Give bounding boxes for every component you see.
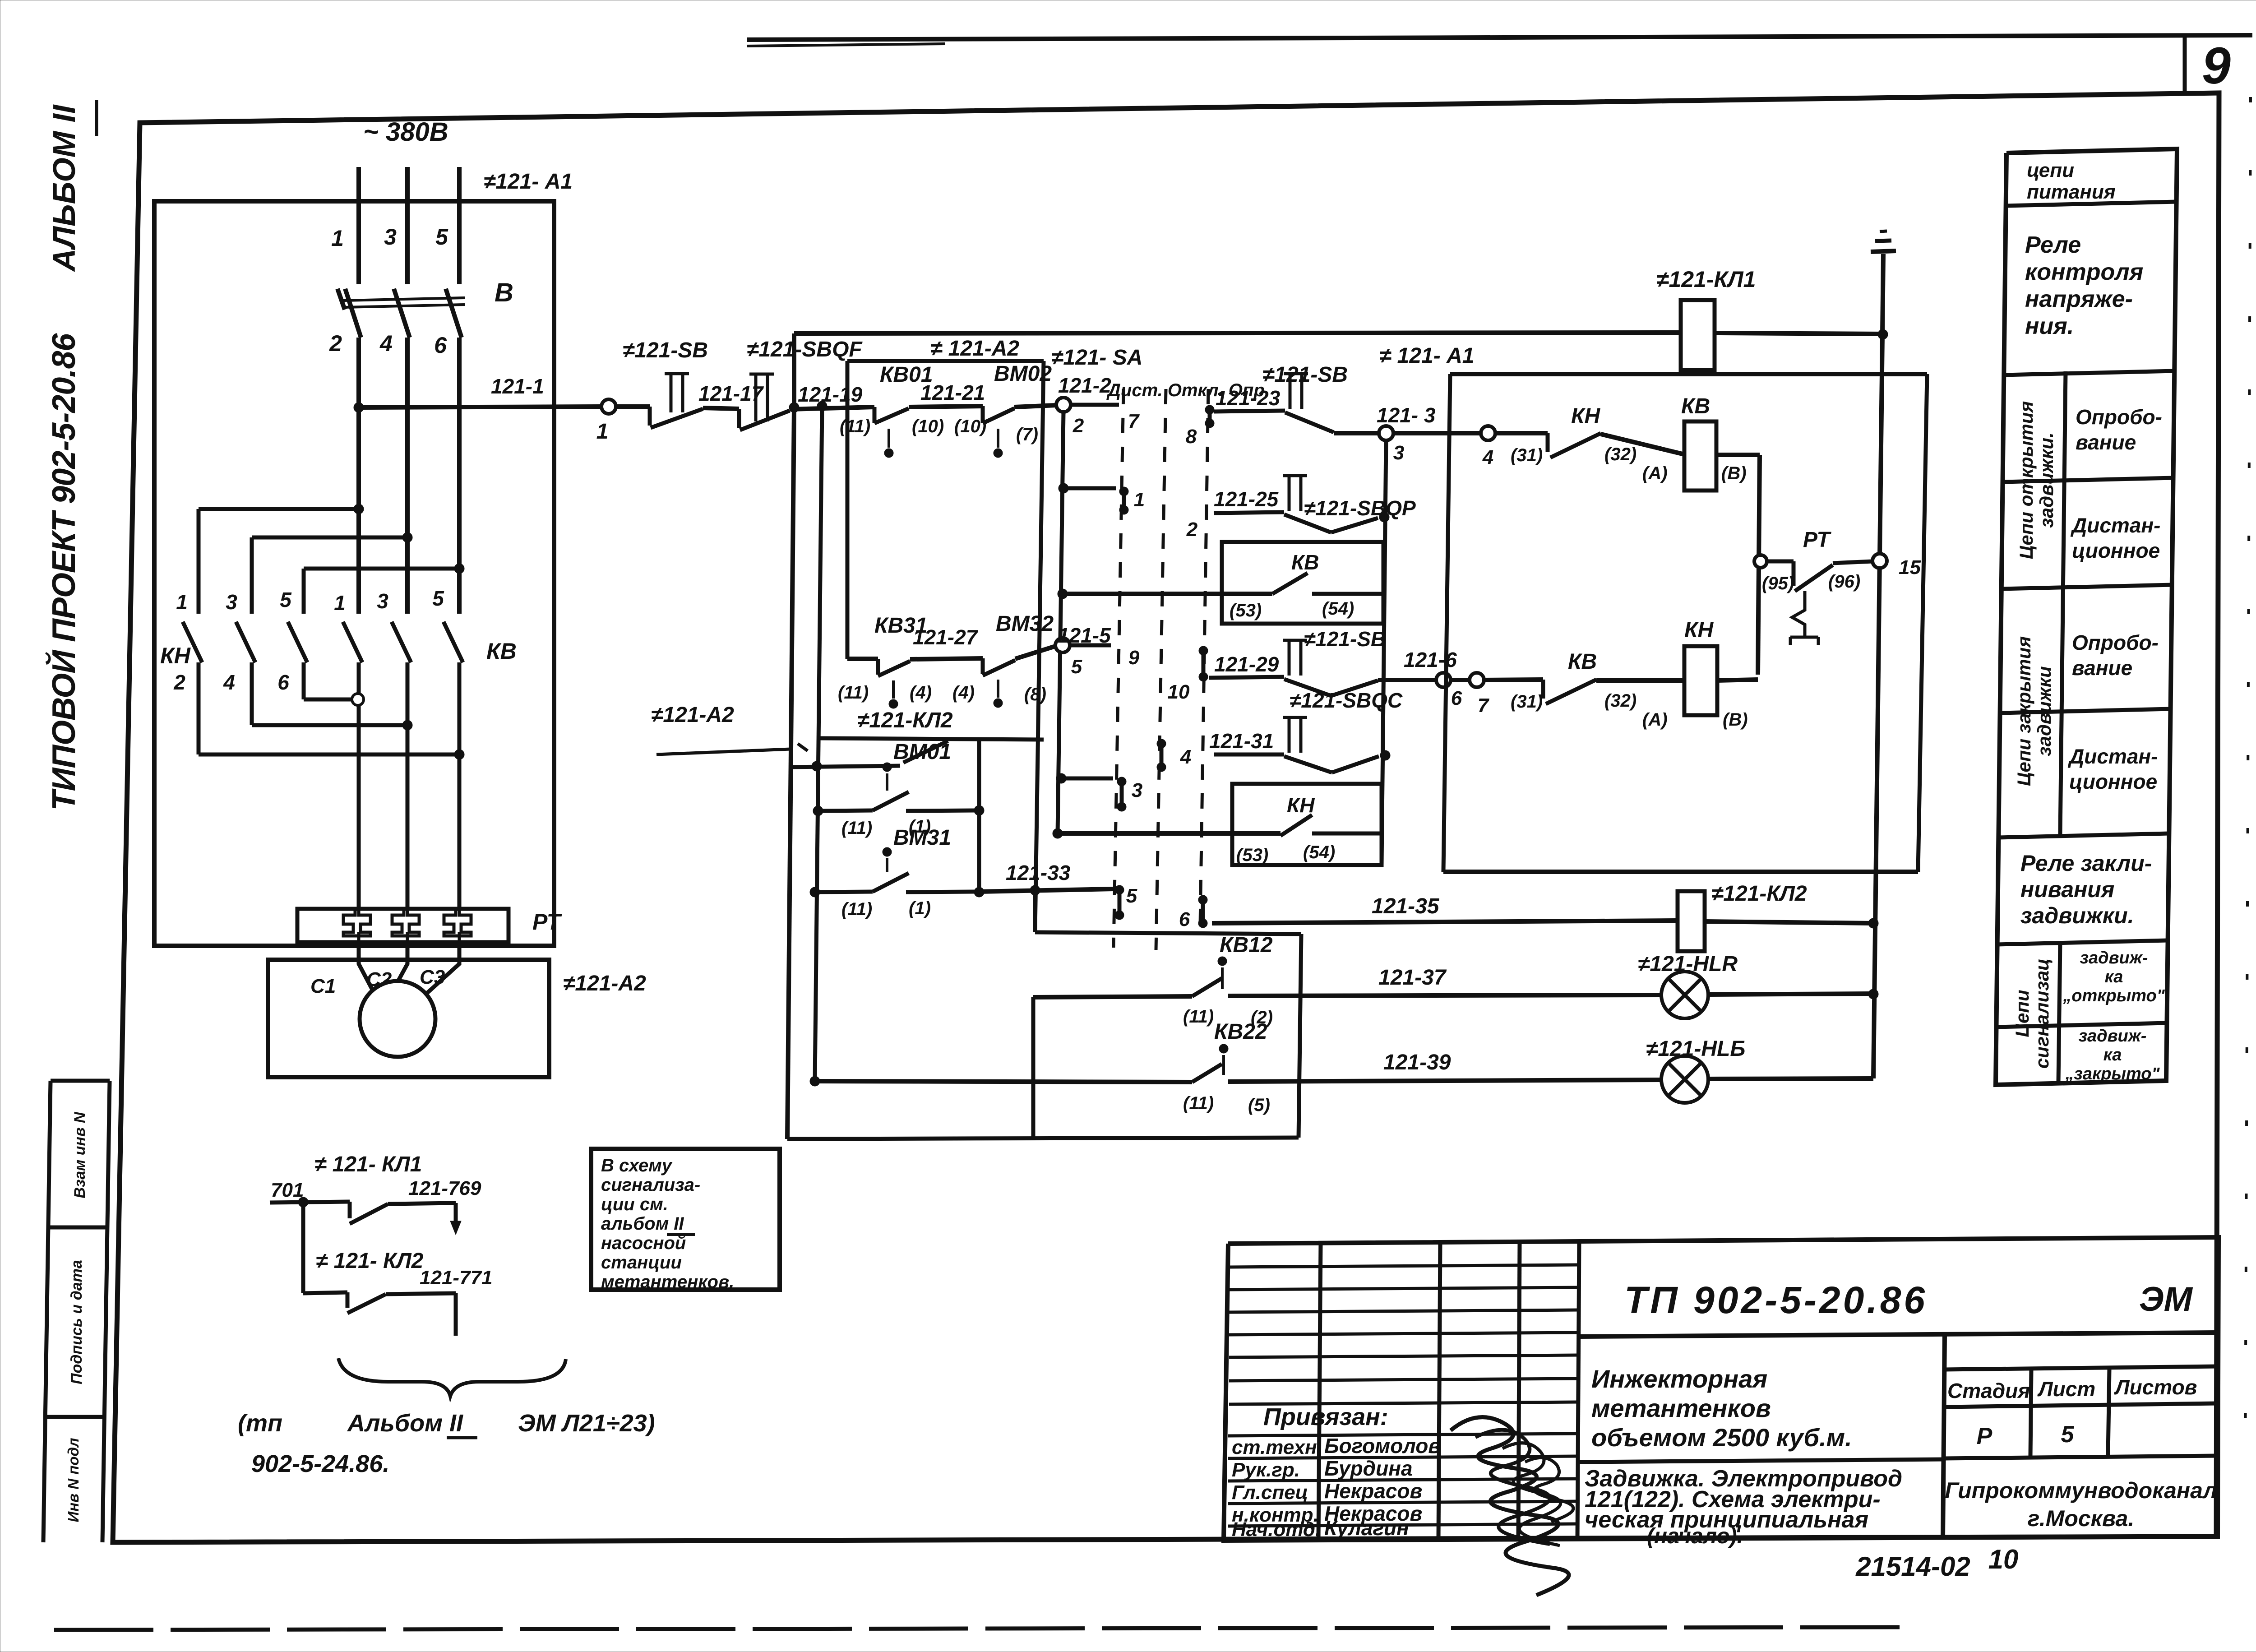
- reversing jumper top 2: [252, 536, 407, 540]
- svg-text:цепи: цепи: [2027, 159, 2074, 181]
- node 7: [1470, 673, 1484, 687]
- svg-text:Цепи закрытия: Цепи закрытия: [2013, 636, 2034, 786]
- svg-text:≠121-А2: ≠121-А2: [563, 972, 646, 995]
- svg-text:(11): (11): [841, 899, 872, 919]
- svg-text:ка: ка: [2103, 1046, 2122, 1064]
- title col line 2: [1438, 1242, 1440, 1540]
- wire HLR to bus: [1708, 994, 1873, 995]
- svg-text:АЛЬБОМ II: АЛЬБОМ II: [46, 104, 82, 272]
- svg-text:121-37: 121-37: [1378, 966, 1447, 990]
- svg-text:Рук.гр.: Рук.гр.: [1232, 1459, 1300, 1481]
- KH lower stub 2: [250, 662, 254, 725]
- svg-text:задвижки: задвижки: [2034, 666, 2055, 756]
- SA contact mark col3 row6: [1198, 895, 1207, 904]
- bottom perforation line: [54, 1627, 1900, 1630]
- svg-text:≠121-HLБ: ≠121-HLБ: [1646, 1037, 1745, 1061]
- svg-text:РТ: РТ: [532, 909, 562, 935]
- svg-text:С3: С3: [420, 966, 445, 988]
- svg-text:121-769: 121-769: [408, 1177, 481, 1199]
- table divider y1064: [2003, 478, 2173, 482]
- svg-text:≠121-SBQP: ≠121-SBQP: [1304, 496, 1416, 520]
- КВ12 actuator: [1218, 957, 1227, 966]
- reversing jumper top 3: [304, 567, 459, 571]
- svg-text:напряже-: напряже-: [2025, 286, 2133, 312]
- wire КЛ1 to ground bus: [1715, 333, 1883, 334]
- svg-text:(10): (10): [912, 416, 944, 436]
- table sub divider open/close: [2060, 371, 2066, 835]
- node 1: [601, 399, 616, 414]
- svg-text:Реле закли-: Реле закли-: [2020, 851, 2152, 876]
- title row thin 6: [1229, 1379, 1578, 1381]
- SA column 2 dashed: [1156, 389, 1166, 950]
- svg-text:121-6: 121-6: [1404, 648, 1457, 671]
- lamp box top wire: [1035, 932, 1301, 934]
- title name row 5: [1228, 1524, 1578, 1526]
- SA column 3 dashed: [1200, 389, 1208, 925]
- svg-text:метантенков.: метантенков.: [601, 1272, 734, 1292]
- contact КЛ2: [812, 761, 822, 771]
- svg-text:~ 380В: ~ 380В: [363, 117, 448, 147]
- title header big divider: [1579, 1333, 2219, 1337]
- note brace: [338, 1358, 566, 1396]
- svg-text:ВМ01: ВМ01: [893, 740, 951, 764]
- wire to КН coil: [1596, 678, 1684, 683]
- note box: [591, 1149, 780, 1290]
- КВ01 actuator: [884, 449, 893, 458]
- contactor В blade c: [446, 289, 462, 338]
- svg-text:Гипрокоммунводоканал: Гипрокоммунводоканал: [1945, 1478, 2217, 1503]
- reversing jumper bottom 3: [199, 753, 459, 757]
- title name row 1: [1228, 1434, 1578, 1436]
- svg-text:сигнализац: сигнализац: [2031, 958, 2053, 1069]
- КВ12 row left drop: [1031, 997, 1036, 1139]
- svg-text:≠ 121- А1: ≠ 121- А1: [1379, 344, 1474, 368]
- contact КН 53-54: [1281, 815, 1312, 836]
- phase wire L3 top: [457, 167, 462, 284]
- svg-text:(1): (1): [909, 898, 931, 918]
- KV lower stub 1: [357, 662, 361, 909]
- svg-text:10: 10: [1988, 1544, 2019, 1574]
- svg-text:3: 3: [377, 589, 388, 613]
- svg-text:Дистан-: Дистан-: [2070, 514, 2161, 537]
- svg-text:≠121-SB: ≠121-SB: [1262, 363, 1348, 387]
- svg-text:Листов: Листов: [2114, 1375, 2197, 1399]
- SA contact mark col1 row5: [1115, 885, 1124, 894]
- svg-text:(54): (54): [1322, 599, 1354, 619]
- title row thin 4: [1229, 1333, 1578, 1335]
- wire node5 to SA: [1070, 643, 1111, 648]
- svg-text:3: 3: [384, 224, 397, 250]
- svg-text:8: 8: [1186, 426, 1197, 448]
- wire HLG to bus: [1708, 1078, 1873, 1079]
- contact ВМ02: [981, 406, 985, 423]
- svg-text:(тп: (тп: [238, 1410, 282, 1437]
- svg-text:7: 7: [1128, 410, 1140, 432]
- riser V1878: [846, 361, 850, 659]
- svg-text:ЭМ: ЭМ: [2139, 1280, 2193, 1319]
- svg-text:КН: КН: [160, 643, 191, 668]
- svg-text:Опробо-: Опробо-: [2072, 631, 2159, 654]
- svg-text:Нач.отд.: Нач.отд.: [1232, 1518, 1321, 1541]
- svg-text:(11): (11): [1183, 1093, 1214, 1113]
- svg-text:4: 4: [223, 671, 235, 694]
- motor M circle: [360, 981, 435, 1057]
- page number box: [2183, 35, 2187, 94]
- wire node6-node7: [1451, 678, 1470, 682]
- wire 121-25: [1214, 512, 1284, 513]
- contact ВМ01: [813, 806, 823, 816]
- svg-text:≠ 121- КЛ1: ≠ 121- КЛ1: [314, 1152, 422, 1176]
- fuse-switch SBQP: [1288, 476, 1291, 511]
- title block outline: [1224, 1237, 2219, 1541]
- thermal heater element 1: [343, 909, 370, 936]
- svg-text:ния.: ния.: [2025, 313, 2074, 339]
- svg-text:задвиж-: задвиж-: [2080, 949, 2148, 967]
- svg-text:(31): (31): [1511, 692, 1543, 712]
- svg-text:121-33: 121-33: [1006, 861, 1071, 884]
- rail V2170: [977, 737, 981, 892]
- svg-text:≠121-SB: ≠121-SB: [1304, 627, 1386, 651]
- svg-text:121-29: 121-29: [1214, 652, 1279, 676]
- SA column 1 dashed: [1114, 389, 1123, 948]
- node 15: [1872, 554, 1887, 568]
- phase wire L2 top: [405, 167, 410, 284]
- svg-text:4: 4: [1482, 446, 1493, 468]
- svg-text:Привязан:: Привязан:: [1263, 1403, 1388, 1430]
- contact КВ01: [873, 407, 877, 423]
- table divider y827: [2004, 371, 2175, 375]
- wire 121-23: [1214, 411, 1285, 412]
- svg-text:Р: Р: [1977, 1423, 1992, 1449]
- KH column stub 3: [302, 569, 306, 614]
- svg-text:5: 5: [435, 224, 448, 250]
- svg-text:РТ: РТ: [1803, 528, 1831, 552]
- svg-text:Кулагин: Кулагин: [1324, 1516, 1409, 1540]
- svg-text:≠121-А2: ≠121-А2: [651, 703, 734, 727]
- svg-text:Инв N подл: Инв N подл: [65, 1438, 82, 1522]
- svg-text:1: 1: [176, 590, 188, 614]
- svg-text:ции см.: ции см.: [601, 1194, 668, 1214]
- wire row3 from V2357: [1056, 773, 1066, 783]
- contact КВ 53-54: [1272, 573, 1308, 594]
- svg-text:нивания: нивания: [2020, 877, 2114, 902]
- phase wire L1 top: [356, 167, 361, 284]
- svg-text:(95): (95): [1762, 574, 1794, 593]
- svg-text:Дистан-: Дистан-: [2067, 745, 2158, 768]
- svg-text:(8): (8): [1024, 685, 1046, 704]
- function table outline: [1996, 149, 2177, 1085]
- svg-text:121-21: 121-21: [920, 381, 985, 404]
- svg-text:9: 9: [1128, 647, 1140, 669]
- stage block divider: [1943, 1334, 1945, 1539]
- svg-text:1: 1: [334, 591, 346, 615]
- riser V2313: [1035, 361, 1044, 932]
- КВ22 actuator: [1219, 1044, 1228, 1053]
- wire 121-39: [1228, 1080, 1661, 1082]
- svg-text:(32): (32): [1604, 444, 1637, 464]
- svg-text:≠121-SB: ≠121-SB: [623, 338, 708, 362]
- contactor КВ blade 1: [343, 622, 362, 662]
- left margin column: [43, 1081, 51, 1542]
- ВМ02 actuator: [994, 449, 1003, 458]
- motor wire C2: [397, 942, 407, 984]
- svg-text:Богомолов: Богомолов: [1324, 1434, 1441, 1458]
- table divider y1301: [2002, 585, 2172, 589]
- svg-text:Гл.спец: Гл.спец: [1232, 1481, 1308, 1504]
- svg-text:(10): (10): [954, 416, 986, 436]
- relay coil КН: [1684, 646, 1717, 715]
- svg-text:насосной: насосной: [601, 1233, 686, 1253]
- SA contact mark col1 row1: [1119, 487, 1128, 496]
- svg-text:(31): (31): [1511, 445, 1543, 465]
- wire 121-33: [979, 889, 1113, 892]
- wire kv31-vm32: [910, 658, 983, 659]
- svg-text:(96): (96): [1828, 572, 1860, 592]
- table divider y1576: [2000, 709, 2171, 713]
- relay coil ≠121-КЛ1: [1681, 300, 1715, 370]
- svg-text:1: 1: [331, 226, 344, 251]
- ground bus vertical: [1873, 334, 1882, 1078]
- wire kv01-vm02: [909, 406, 983, 407]
- А1 rail top: [1450, 372, 1927, 376]
- svg-text:≠121-SBQF: ≠121-SBQF: [747, 338, 863, 361]
- svg-text:5: 5: [1126, 885, 1137, 907]
- wire row1 from V2357: [1059, 483, 1068, 493]
- svg-text:15: 15: [1899, 556, 1921, 578]
- stage header divider v2: [2108, 1369, 2109, 1456]
- svg-text:ВМ31: ВМ31: [893, 826, 951, 850]
- svg-text:121-771: 121-771: [420, 1267, 492, 1289]
- wire 121-29: [1209, 677, 1284, 678]
- svg-text:(54): (54): [1303, 842, 1335, 862]
- lamp box bottom wire: [787, 1138, 1299, 1139]
- svg-text:5: 5: [1071, 656, 1082, 678]
- svg-text:21514-02: 21514-02: [1855, 1551, 1970, 1582]
- svg-text:(11): (11): [841, 818, 872, 838]
- thermal heater element 2: [392, 909, 419, 936]
- note contact КЛ2: [346, 1292, 350, 1308]
- svg-text:Реле: Реле: [2025, 232, 2081, 258]
- svg-text:альбом II: альбом II: [601, 1214, 684, 1234]
- svg-text:Стадия: Стадия: [1947, 1379, 2030, 1402]
- svg-text:сигнализа-: сигнализа-: [601, 1175, 700, 1195]
- svg-text:„закрыто": „закрыто": [2065, 1064, 2160, 1083]
- svg-text:задвижки.: задвижки.: [2020, 903, 2134, 928]
- title name row 4: [1228, 1501, 1578, 1504]
- contactor В blade b: [394, 289, 410, 338]
- svg-text:(А): (А): [1642, 463, 1668, 483]
- svg-text:КВ12: КВ12: [1220, 933, 1273, 957]
- svg-text:701: 701: [271, 1179, 304, 1201]
- rail V3: [1443, 374, 1450, 872]
- relay coil ≠121-КЛ2: [1678, 891, 1705, 951]
- svg-text:В: В: [495, 278, 513, 307]
- wire vm32-node5: [1015, 646, 1055, 659]
- svg-text:≠121-HLR: ≠121-HLR: [1638, 952, 1738, 976]
- svg-text:(4): (4): [910, 683, 932, 703]
- svg-text:≠121-КЛ2: ≠121-КЛ2: [1711, 882, 1807, 906]
- SA contact mark col1 row3: [1117, 777, 1126, 786]
- svg-text:Взам инв N: Взам инв N: [71, 1111, 88, 1199]
- note riser: [301, 1202, 305, 1293]
- svg-text:Альбом II: Альбом II: [347, 1410, 463, 1437]
- ВМ31 actuator: [883, 847, 892, 856]
- wire 121-37: [1228, 995, 1661, 996]
- svg-text:КН: КН: [1684, 618, 1714, 642]
- svg-text:„открыто": „открыто": [2062, 986, 2165, 1005]
- table sub divider signal: [2058, 942, 2060, 1083]
- note wire row2: [303, 1292, 347, 1293]
- line A top: [819, 738, 1044, 740]
- svg-text:Опробо-: Опробо-: [2076, 405, 2162, 429]
- КЛ1 feed wire: [794, 333, 1681, 333]
- svg-text:задвиж-: задвиж-: [2079, 1027, 2147, 1046]
- title col line 4: [1577, 1241, 1579, 1540]
- relay coil КВ: [1684, 421, 1716, 491]
- ground symbol: [1882, 254, 1883, 334]
- svg-text:121- 3: 121- 3: [1377, 403, 1436, 427]
- rail V2: [1918, 374, 1927, 872]
- svg-text:КВ22: КВ22: [1214, 1020, 1267, 1044]
- svg-text:КВ: КВ: [486, 639, 517, 664]
- motor wire C3: [421, 942, 459, 998]
- stage header divider v1: [2030, 1370, 2031, 1457]
- contactor В blade a: [345, 289, 361, 338]
- table divider y452: [2006, 202, 2177, 206]
- svg-text:2: 2: [1186, 518, 1198, 541]
- phase wire L2 mid: [405, 338, 410, 614]
- contact КВ22: [810, 1076, 820, 1086]
- svg-text:(А): (А): [1642, 710, 1668, 730]
- svg-text:5: 5: [432, 587, 444, 610]
- svg-text:3: 3: [1132, 779, 1142, 801]
- fuse-switch ≠121-SB: [670, 374, 673, 412]
- thermal heater element 3: [444, 909, 471, 936]
- wire to fuse SB: [616, 404, 650, 409]
- svg-text:121-35: 121-35: [1372, 894, 1440, 918]
- title row thin 7: [1229, 1402, 1578, 1404]
- svg-text:121-31: 121-31: [1209, 729, 1274, 753]
- project divider: [1579, 1459, 1945, 1462]
- contactor КВ blade 2: [392, 622, 411, 662]
- wire vm02-node2: [1014, 405, 1056, 407]
- rail VR: [1382, 440, 1386, 865]
- contact ВМ32: [981, 658, 985, 674]
- stage header row: [1945, 1366, 2218, 1370]
- svg-text:121-19: 121-19: [798, 383, 863, 406]
- wire 121-1: [359, 407, 601, 407]
- contact КВ31: [847, 657, 878, 661]
- svg-text:10: 10: [1168, 681, 1190, 703]
- svg-text:121-23: 121-23: [1216, 386, 1281, 410]
- svg-text:6: 6: [277, 671, 289, 694]
- lamp ≠121-HLG: [1661, 1056, 1708, 1103]
- lamp box right rail: [1299, 934, 1301, 1138]
- svg-text:ционное: ционное: [2069, 770, 2157, 793]
- contactor КВ blade 3: [444, 622, 463, 662]
- junction 121-31 join: [1380, 750, 1390, 760]
- svg-text:питания: питания: [2027, 181, 2116, 203]
- phase wire L1 mid: [356, 338, 361, 614]
- svg-text:≠121-КЛ2: ≠121-КЛ2: [857, 708, 953, 732]
- svg-text:Цепи: Цепи: [2011, 990, 2033, 1037]
- svg-text:КВ: КВ: [1568, 650, 1597, 674]
- svg-text:ционное: ционное: [2072, 539, 2160, 562]
- phase wire L3 mid: [457, 338, 462, 614]
- KV lower stub 2: [406, 662, 410, 909]
- title row thin 1: [1229, 1265, 1578, 1267]
- svg-text:(11): (11): [840, 416, 870, 436]
- svg-text:Лист: Лист: [2037, 1377, 2095, 1401]
- contact КВ NC: [1484, 680, 1543, 680]
- coil return rail V3900: [1758, 455, 1760, 675]
- КН holding box: [1232, 784, 1382, 865]
- svg-text:≠ 121- КЛ2: ≠ 121- КЛ2: [316, 1249, 424, 1273]
- svg-text:Некрасов: Некрасов: [1324, 1479, 1422, 1503]
- svg-text:4: 4: [379, 331, 393, 356]
- wire КН coil out: [1717, 680, 1758, 680]
- svg-text:ВМ02: ВМ02: [994, 362, 1052, 386]
- title col line 3: [1518, 1242, 1520, 1540]
- top perforation line: [747, 35, 2252, 40]
- svg-text:объемом 2500 куб.м.: объемом 2500 куб.м.: [1591, 1423, 1852, 1452]
- wire КЛ2 coil out: [1705, 921, 1873, 923]
- note wire down2: [454, 1293, 458, 1336]
- svg-text:(начало).: (начало).: [1647, 1524, 1743, 1548]
- junction riser: [789, 403, 799, 412]
- title row thin 2: [1229, 1287, 1578, 1290]
- title name row 3: [1228, 1479, 1578, 1481]
- svg-text:КН: КН: [1287, 793, 1315, 817]
- svg-text:КВ: КВ: [1681, 394, 1710, 418]
- РТ heater hook: [1792, 591, 1805, 637]
- svg-text:КВ: КВ: [1291, 551, 1319, 574]
- wire to КВ coil: [1601, 434, 1684, 454]
- contact КВ12: [1033, 996, 1192, 997]
- КВ31 actuator: [889, 699, 898, 708]
- SA contact mark col2 row4: [1157, 739, 1166, 748]
- svg-text:9: 9: [2202, 37, 2231, 95]
- svg-text:контроля: контроля: [2025, 259, 2143, 285]
- svg-text:(5): (5): [1248, 1095, 1270, 1115]
- title col line 1: [1318, 1243, 1321, 1540]
- svg-text:2: 2: [329, 331, 342, 356]
- svg-text:ст.техн.: ст.техн.: [1232, 1436, 1322, 1458]
- branch to lamp box: [1033, 890, 1037, 932]
- node 121-6: [1436, 673, 1451, 687]
- contactor КН blade 1: [183, 622, 202, 662]
- svg-text:ВМ32: ВМ32: [996, 612, 1054, 636]
- signature scribbles: [1451, 1417, 1569, 1595]
- enclosure box ≠121-А1: [154, 201, 554, 946]
- note contact КЛ1: [348, 1202, 352, 1218]
- bottom rail row: [1443, 870, 1918, 874]
- svg-text:ТИПОВОЙ ПРОЕКТ 902-5-20.86: ТИПОВОЙ ПРОЕКТ 902-5-20.86: [45, 333, 82, 811]
- stage values row: [1945, 1456, 2218, 1458]
- svg-text:(7): (7): [1016, 425, 1038, 444]
- wire КВ coil out: [1716, 453, 1760, 457]
- table divider y2272: [1996, 1023, 2167, 1027]
- ladder rail V2357: [1058, 412, 1063, 833]
- KH column stub 1: [197, 509, 201, 614]
- svg-text:С1: С1: [310, 975, 336, 997]
- table divider y2089: [1997, 940, 2168, 944]
- rail V1813: [817, 401, 827, 411]
- fuse-switch SB open: [1289, 374, 1292, 409]
- svg-text:Подпись и дата: Подпись и дата: [68, 1260, 85, 1384]
- title row thin 3: [1229, 1310, 1578, 1312]
- svg-text:3: 3: [1393, 442, 1404, 464]
